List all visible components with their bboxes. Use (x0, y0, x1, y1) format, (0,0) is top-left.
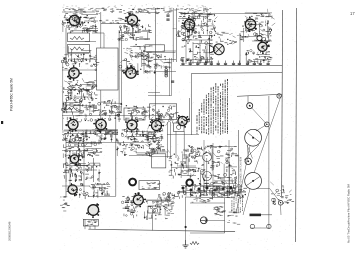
dial cord crossing segment j (244, 145, 259, 160)
wire ground bus (y=65.5) (180, 64, 282, 66)
wire rectifier box pin 1 to bus (84, 219, 86, 229)
components inside T4 (151, 105, 177, 119)
phono label text (213, 206, 226, 216)
dial cord: idler pulley P2 (247, 103, 253, 109)
tube V10 6V6 (125, 118, 139, 133)
band switch wafer cluster (196, 145, 240, 196)
dial frame screw hole right (267, 224, 271, 228)
component cluster below V10/V11 (121, 124, 155, 143)
tube V15 6X4 rectifier (86, 203, 100, 218)
labels between V1 and V2 (80, 16, 130, 23)
wire rail (x=176.4) (175, 8, 177, 62)
component strip below V11 (R30-R33) (150, 128, 165, 154)
tube V1 6BA6 RF amplifier (67, 15, 82, 27)
component cluster below tube row C (62, 128, 118, 145)
wire left edge rail (x=62.8) (62, 63, 64, 130)
tiny labels near rail B (284, 195, 291, 203)
wire rail (x=116) (115, 112, 117, 196)
wire drop left (x=185.5) (185, 197, 187, 240)
capacitor C16 (180, 59, 183, 60)
wire band switch drop x=229 (228, 140, 230, 196)
wires left column upper (67, 42, 96, 62)
wires dense row y186-196 (178, 185, 246, 197)
wire left rail upper (x=66) (65, 28, 67, 60)
tube V2 6BE6 converter (125, 13, 141, 27)
component cluster around V3 (173, 11, 219, 39)
faint cut-off marks at very top edge (63, 5, 209, 9)
wires right of V14 (79, 184, 110, 198)
wires around V4 (241, 13, 272, 42)
wires between V13 and V14 (64, 163, 100, 182)
wire bus (y=70) row B left (62, 69, 96, 71)
wires below tube row C (64, 129, 118, 142)
rectifier socket box (83, 219, 98, 226)
wire bottom bus (y=229.5) (88, 229, 235, 231)
wire bus (y=197) (185, 196, 235, 199)
wire drop (x=84) lower-left (83, 143, 85, 196)
dial cord segment d (247, 145, 250, 158)
tube V8 12AX7 audio (65, 117, 78, 132)
svg-text:Pilot HF65C Radio 5M: Pilot HF65C Radio 5M (10, 78, 14, 111)
oscillator coil L4 (loops) (165, 69, 168, 77)
wire V3 cathode bus (183, 39, 213, 41)
power transformer terminal strip box (139, 181, 159, 190)
capacitor C52 electrolytic (130, 201, 134, 203)
RF shield box (empty) (97, 48, 119, 90)
wires T6 area (171, 154, 197, 179)
component cluster center (y=148) (117, 142, 151, 155)
dial cord: idler pulley P4 (265, 122, 270, 127)
svg-text:2008051200546: 2008051200546 (8, 221, 12, 241)
dial pointer bar (250, 214, 262, 217)
IF transformer T4 box (150, 104, 177, 120)
resistor R22 (76, 162, 79, 172)
wire notes area left border (x=191.5) (191, 73, 193, 135)
speaker / output transformer symbol (210, 44, 225, 55)
dial cord segment e (to pointer) (236, 146, 250, 213)
label cluster above speaker (216, 32, 241, 45)
wire rail (x=190) (189, 98, 191, 122)
capacitor C12 top pair (166, 15, 169, 16)
tube V11 6AL5 (149, 118, 164, 132)
dial stringing notes text block (232, 196, 243, 213)
resistor R40 bottom (190, 242, 199, 245)
wire bus (y=142.5) (66, 142, 150, 144)
wire bus (y=70) row B right (119, 69, 132, 71)
resistor R23 (86, 162, 89, 172)
wire band switch drop x=204 (203, 140, 205, 196)
pilot lamp P1 (257, 35, 262, 40)
tube V13 oscillator triode (68, 154, 82, 166)
wire rail (x=173) (172, 8, 174, 62)
wires around V2 (121, 23, 150, 40)
resistor R8 (145, 52, 148, 61)
junction dot (185, 226, 187, 228)
wire long rail B (x=296) (296, 8, 297, 242)
capacitor row C20-C32 along ground bus (181, 61, 269, 66)
resistor R11 (67, 84, 70, 93)
capacitor C17 (186, 59, 189, 60)
wire (y=196.5) lower-left frame bottom (88, 196, 116, 198)
capacitor C51 electrolytic (125, 207, 129, 209)
wire drop x=186 (185, 40, 187, 64)
jack J2 (dark ring) (186, 180, 192, 186)
label cluster right of rails (178, 13, 188, 33)
scan paper noise texture (59, 2, 302, 250)
IF transformer T1 box (68, 33, 90, 42)
wires mid AVC (103, 103, 122, 114)
wire top bus right end drop (269, 14, 271, 17)
component cluster left column y60-70 (61, 59, 99, 71)
resistor R31 (156, 141, 159, 149)
component cluster x185-199 y145-158 (185, 145, 202, 159)
dial cord: small pulley P6 (278, 200, 283, 205)
wire (y=92.4) (148, 91, 160, 93)
wire rectifier box pin 2 to bus (89, 226, 91, 229)
dial cord segment c (long diagonal) (254, 96, 281, 173)
component cluster below T2 (63, 54, 97, 63)
capacitor C13 top pair (166, 19, 169, 20)
resistor R30 (152, 131, 155, 139)
wires left of speaker (189, 35, 214, 64)
phono jack J3 (200, 217, 207, 224)
wires around V1 (63, 15, 98, 32)
capacitor C53 electrolytic (130, 211, 134, 213)
component cluster left column y112-122 (63, 113, 99, 123)
terminal box right of V16 (148, 206, 160, 213)
terminal strip labels (142, 182, 161, 189)
label cluster right of phono (227, 210, 240, 225)
wire band switch drop x=213 (212, 143, 214, 196)
wires left AVC (63, 101, 98, 113)
wire V1 plate to V2 (101, 23, 133, 25)
resistor R18 in box (66, 107, 78, 109)
wire rail (x=170.3) (169, 122, 171, 158)
dial cord segment g (270, 189, 281, 203)
wire top bus right (180, 13, 270, 15)
svg-text:No.05 TheCircuitArchive Pilot: No.05 TheCircuitArchive Pilot HF65C Radi… (347, 183, 351, 243)
wire (y=95.4) (148, 94, 171, 96)
electrolytic cluster labels (121, 196, 138, 218)
switch wafer SW1a (203, 153, 212, 162)
wire drop from V4 (x=240) (239, 33, 241, 64)
component cluster left of speaker (181, 27, 214, 62)
coupling transformer box left (y=105) (63, 105, 80, 112)
wires right of V7 column (126, 46, 150, 74)
capacitor C40 (86, 90, 89, 91)
component cluster above V13 (63, 142, 102, 159)
wire rail (x=121.6) (121, 30, 123, 104)
wire dial frame bottom (y=228) (250, 227, 270, 229)
wire rail (x=119) (118, 30, 120, 122)
wire top bus left (62, 11, 95, 13)
wire drop (x=176) (175, 131, 177, 158)
tube V7 6BE6 2nd converter (123, 65, 139, 78)
wires below V10/V11 (125, 129, 156, 142)
wire (y=186) lower-left (62, 185, 90, 187)
label cluster: top edge component values (63, 8, 212, 14)
component cluster bottom right (270, 182, 294, 205)
wire rail mid (x=101) upper (100, 12, 102, 48)
component cluster around V2 (118, 24, 152, 42)
wire (y=152) (148, 151, 168, 153)
wire phono loop bottom (190, 232, 225, 234)
dial cord: tuning drum upper (245, 129, 262, 146)
dial cord crossing segment k (247, 145, 253, 159)
tube V4 6AT6 detector (245, 16, 257, 32)
tube V6 6BA6 2nd IF (67, 65, 82, 81)
wire pointer extension (261, 214, 272, 216)
wire rail mid (x=101) lower (100, 90, 102, 130)
wire top bus center (140, 12, 160, 14)
notes list text block (service notes, rotated) (197, 79, 228, 135)
ground symbol GND1 (183, 240, 189, 248)
component cluster below V5 (246, 50, 273, 66)
wires below V5 (245, 54, 270, 63)
wire band switch rail (x=238.6) (238, 130, 240, 196)
wire dial frame top line (y=95) (237, 94, 283, 96)
svg-text:17: 17 (350, 11, 355, 16)
dial cord segment b (256, 124, 267, 131)
trimmer capacitor CT1 (177, 125, 181, 129)
wires around V3 (178, 13, 215, 39)
resistor ladder cluster left (R10-R14) (63, 78, 98, 101)
tube V9 6AQ5 (93, 118, 107, 132)
dense component row y186-196 (177, 184, 247, 199)
dial cord segment i (243, 189, 250, 215)
wire drop x=200 (199, 40, 201, 64)
dial cord: tuning drum lower (245, 173, 262, 190)
component cluster above (157, 192, 178, 202)
wire into shield box (92, 32, 104, 34)
tube V3 6BA6 IF amplifier (182, 17, 195, 33)
oscillator coil L3 box (145, 45, 165, 52)
wire bus segment (y=131) right (124, 131, 160, 133)
wires resistor ladder (63, 83, 97, 100)
trimmer box above (174, 123, 185, 132)
wires band switch area (200, 146, 238, 196)
wire (y=134.3) (167, 133, 199, 135)
dial cord: idler pulley P3 (277, 94, 281, 98)
tube V12 6C4 (177, 115, 189, 128)
wire drop x=193 (192, 42, 194, 64)
component cluster below L3 (145, 54, 172, 74)
wire notes area top border (y=73) (192, 72, 282, 75)
wire drop to shield box (103, 33, 105, 48)
wire rectifier box pin 3 to bus (94, 226, 96, 229)
wire drop (x=184.2) (183, 131, 185, 158)
wire drop to bottom bus (152, 209, 154, 231)
component cluster around V1 grid (61, 14, 97, 33)
wires below L3 (146, 51, 176, 74)
wire rail (x=93.4) (92, 158, 94, 182)
wire rail (x=155.5) (155, 8, 157, 120)
component cluster above tube row C (102, 112, 179, 126)
wire left rail lower (65, 140, 67, 196)
component cluster left column y132-143 (62, 132, 98, 144)
tube V16 (133, 192, 146, 207)
resistor R12 (78, 84, 81, 93)
wire phono loop top (190, 202, 225, 204)
resistor R1 in T1 box (70, 37, 84, 40)
filter choke L6 box (152, 154, 166, 168)
wires center y148 (116, 144, 152, 156)
socket pin labels (85, 220, 97, 226)
jack J1 (dark ring) (129, 179, 136, 186)
capacitor C50 electrolytic (125, 201, 129, 203)
component cluster between V13 and V14 (63, 163, 101, 181)
wire phono loop right (x=224.7) (224, 198, 226, 233)
component cluster around V4 incl. resistor chain (240, 9, 275, 42)
label cluster left edge bottom (60, 196, 70, 211)
wire long rail A (x=282) (282, 10, 283, 196)
resistor R2 in T2 box (70, 47, 84, 50)
wire bus segment (y=131) left (62, 130, 118, 132)
wire rail (x=167.5) (167, 122, 169, 158)
component cluster right of V14 (80, 183, 111, 200)
wire heater bus (y=115.5) (62, 114, 160, 116)
wire (y=156.5) (150, 156, 172, 158)
registration mark left edge (1, 121, 3, 124)
dial cord segment f (256, 188, 270, 190)
wires right of V16 (144, 200, 174, 220)
component cluster right of V16 (146, 200, 175, 219)
wires above V13 (63, 142, 102, 158)
wire dial frame right edge (x=269) (268, 96, 270, 228)
wire (y=150.5) lower-left (62, 150, 93, 152)
wire rail (x=171.4) (170, 58, 172, 96)
dial cord segment h (280, 205, 282, 215)
tube V5 6AQ5 audio output (258, 40, 270, 55)
switch wafer SW1b (203, 172, 212, 181)
tube V14 rectifier half (67, 183, 78, 196)
wire phono jack lead (207, 219, 225, 221)
power transformer T6 winding cluster (167, 149, 198, 179)
wire drop (x=70) lower-left (69, 150, 71, 186)
dial cord segment a (250, 106, 267, 125)
wire bus y=192.5 (180, 192, 240, 195)
dial cord: idler pulley P5 (245, 158, 251, 164)
component cluster right of V7 column (119, 44, 153, 75)
IF transformer T2 box (68, 45, 90, 53)
component cluster mid AVC (98, 99, 122, 116)
wire drop x=207 (206, 44, 208, 64)
dial frame screw hole left (250, 224, 254, 228)
wire dial cord drop (247, 96, 249, 103)
tube base blobs along y=188 (182, 187, 233, 192)
capacitor C15 on rail (171, 81, 174, 82)
label cluster x126-148 y106-112 (126, 105, 151, 114)
component cluster left AVC (61, 97, 98, 115)
IF transformer T5 box (124, 108, 145, 120)
wire rail (x=169.6) (169, 58, 171, 96)
tube type labels under bus (192, 198, 213, 203)
